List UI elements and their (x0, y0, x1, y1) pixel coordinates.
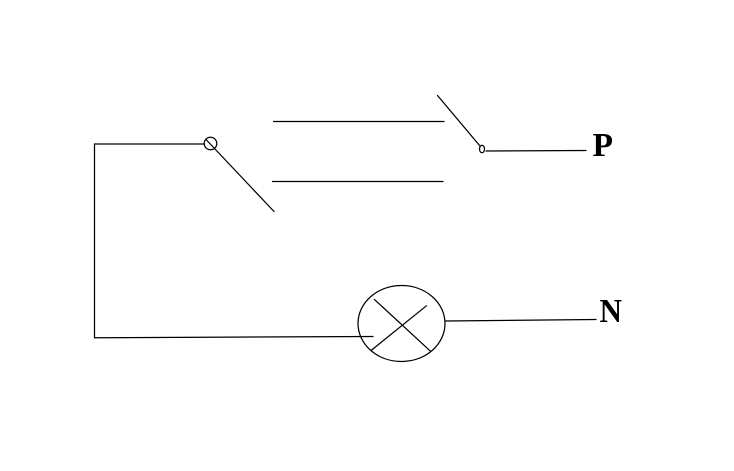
wire top horizontal to switch S1 (95, 143, 205, 145)
wire left vertical (94, 144, 96, 338)
switch S1 pivot circle (204, 137, 217, 150)
lamp L1 cross stroke 1 (374, 299, 430, 351)
switch S2 pivot circle (480, 145, 485, 153)
lamp L1 circle (358, 286, 445, 362)
wire contact top (274, 121, 445, 123)
wire bottom horizontal to lamp (95, 337, 374, 338)
wire contact bottom (273, 181, 444, 183)
wire to P terminal (486, 150, 586, 153)
switch S2 lever (438, 96, 481, 147)
lamp L1 cross stroke 2 (371, 306, 426, 351)
svg-text:P: P (593, 127, 614, 164)
switch S1 lever (207, 140, 275, 212)
svg-text:N: N (600, 293, 623, 330)
wire to N terminal (445, 320, 596, 322)
